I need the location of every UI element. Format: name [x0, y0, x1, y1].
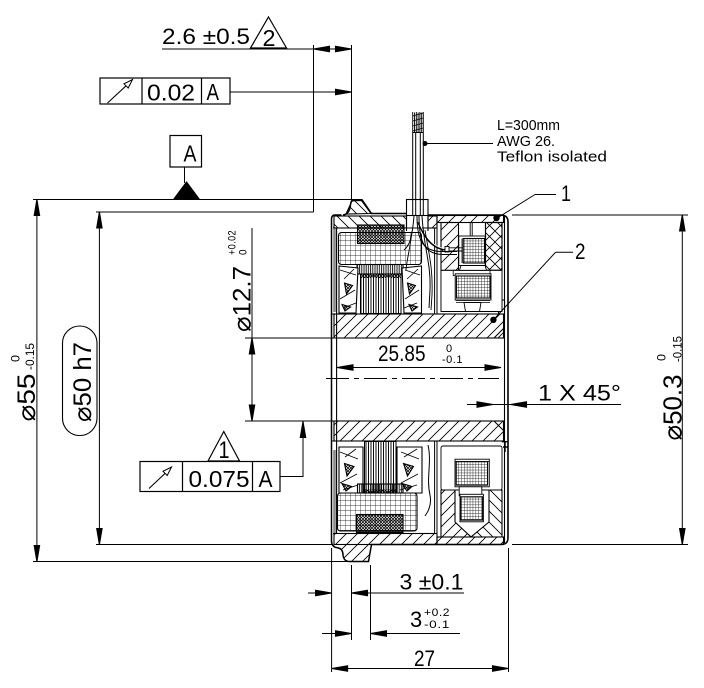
lower bobbin B: [460, 494, 483, 522]
label 1 leader: [497, 195, 557, 219]
label 2 leader: [493, 252, 573, 319]
lower left pole piece: [339, 447, 363, 493]
svg-text:0.02: 0.02: [147, 80, 195, 106]
upper bobbin 2 stem: [464, 303, 481, 312]
svg-text:1 X 45°: 1 X 45°: [538, 381, 621, 406]
bore chamfer bottom right: [494, 421, 504, 431]
bottom hatch band left: [334, 534, 437, 545]
bore chamfer top right: [494, 329, 504, 339]
svg-text:AWG 26.: AWG 26.: [497, 133, 555, 150]
revision flag triangle 2: [251, 17, 287, 48]
svg-text:Teflon isolated: Teflon isolated: [497, 149, 607, 166]
svg-text:-0.1: -0.1: [442, 354, 463, 366]
upper pocket 2 outline: [441, 270, 502, 311]
dia55 extension line top: [33, 199, 361, 201]
upper coil coarse grid block: [339, 233, 422, 265]
dimension 3 +0.2-0.1 line: [322, 633, 460, 635]
sleeve hatch band below bore: [334, 421, 504, 441]
housing right face inner line: [504, 216, 506, 543]
feature control frame 0.02 A: [100, 78, 230, 104]
lower winding block right B: [461, 497, 483, 520]
dia55 dimension line: [36, 200, 38, 562]
datum A filled triangle: [174, 182, 200, 200]
svg-text:A: A: [184, 141, 198, 167]
lower pocket walls: [441, 490, 502, 537]
lower bottom band hatch: [437, 537, 504, 545]
dia50 extension line top: [96, 211, 314, 213]
upper bobbin 1 stem: [470, 223, 472, 236]
svg-text:0.075: 0.075: [189, 466, 250, 492]
dia12.7 dimension line: [251, 228, 253, 421]
extension line x=313.5: [313, 45, 315, 212]
lower bearing hatch zone left: [441, 490, 471, 537]
upper winding block right 1: [463, 239, 484, 264]
svg-text:0: 0: [655, 354, 669, 361]
coil wire to bobbin1: [418, 222, 448, 250]
upper left pole piece: [339, 266, 358, 313]
upper lamination stack: [361, 274, 402, 314]
right face clip marks: [502, 442, 508, 452]
centerline: [326, 378, 499, 380]
datum A stem: [184, 167, 186, 183]
housing outline top-left: [343, 200, 407, 215]
datum A box: [170, 136, 202, 168]
wires above housing: [413, 133, 424, 217]
leader of FCF 0.02: [230, 91, 336, 93]
lower lamination stack: [365, 442, 397, 494]
housing top face right section: [428, 215, 508, 538]
svg-text:25.85: 25.85: [378, 341, 426, 366]
svg-text:2: 2: [263, 25, 276, 51]
lower winding block right A: [456, 462, 487, 485]
housing bottom-right: [332, 538, 509, 562]
divider lower: [435, 441, 437, 534]
upper bobbin 1 lower flange: [460, 266, 487, 271]
svg-text:2.6 ±0.5: 2.6 ±0.5: [162, 24, 250, 49]
upper winding block right 2: [456, 276, 490, 298]
dia12.7 extension lines: [245, 338, 336, 421]
dia50 extension line bottom: [96, 544, 332, 546]
lower bearing pocket outline: [441, 446, 502, 490]
FCF 0.075 leader: [280, 422, 303, 477]
svg-text:L=300mm: L=300mm: [497, 117, 560, 134]
FCF 0.075 A box: [140, 462, 280, 492]
left wall gray strip: [333, 228, 336, 312]
wire routing inside: [417, 216, 457, 252]
lower bobbin A: [455, 459, 489, 487]
svg-text:27: 27: [414, 646, 435, 671]
bottom extension lines: [332, 548, 509, 672]
wire grommet: [407, 200, 429, 216]
upper right pole piece: [402, 266, 422, 313]
svg-text:1: 1: [561, 181, 571, 206]
upper pocket walls: [441, 223, 502, 312]
lower coil coarse grid block: [338, 493, 418, 531]
svg-text:⌀50.3: ⌀50.3: [658, 375, 688, 441]
dimension 27 line: [332, 668, 509, 670]
sleeve hatch band above bore: [334, 314, 504, 338]
flag triangle 1 above FCF: [208, 432, 240, 462]
upper bobbin 1: [459, 236, 485, 266]
svg-text:A: A: [259, 466, 274, 492]
svg-text:⌀50 h7: ⌀50 h7: [69, 342, 97, 422]
housing top hatch band left: [334, 216, 407, 228]
svg-text:-0.1: -0.1: [424, 619, 450, 631]
dia50 dimension line: [98, 212, 100, 545]
lower coil winding band small: [358, 484, 404, 493]
upper bobbin 2: [455, 274, 491, 300]
svg-text:3 ±0.1: 3 ±0.1: [400, 570, 464, 595]
svg-text:+0.2: +0.2: [424, 607, 450, 619]
divider upper coil / bearing area: [435, 215, 437, 314]
dia50.3 extension lines: [512, 215, 688, 545]
lower stem between bobbins: [459, 487, 482, 496]
svg-text:2: 2: [575, 239, 586, 264]
lower right pole piece: [397, 447, 422, 493]
upper bearing area top band hatch: [437, 216, 504, 223]
left wall inner line: [336, 228, 338, 533]
svg-text:⌀55: ⌀55: [13, 374, 41, 422]
dia50 h7 capsule: [63, 326, 98, 436]
svg-text:-0.15: -0.15: [671, 336, 685, 362]
svg-text:0: 0: [9, 355, 23, 362]
wire note leader: [425, 143, 493, 145]
upper bearing hatch zone left: [441, 223, 459, 271]
svg-text:A: A: [207, 79, 220, 105]
runout symbol top: [108, 84, 129, 103]
upper coil winding band 2: [357, 265, 403, 275]
upper bearing hatch zone right: [486, 223, 503, 271]
svg-text:1: 1: [219, 437, 230, 464]
dia55 extension line bottom: [33, 561, 349, 563]
small notch right face above bore: [499, 300, 505, 314]
svg-text:0: 0: [238, 249, 250, 255]
pocket ceiling line upper-left: [333, 227, 437, 229]
lower wire squiggle: [425, 445, 431, 516]
flange step hatch top: [346, 201, 371, 215]
lower section floor line: [441, 536, 502, 538]
svg-text:⌀12.7: ⌀12.7: [229, 266, 257, 332]
extension line x=351.5: [351, 45, 353, 199]
pocket floor line lower-left: [333, 533, 437, 535]
upper coil winding band: [358, 225, 405, 244]
dimension 2.6 +-0.5 line: [162, 48, 352, 50]
dimension 1 X 45 line: [467, 404, 621, 406]
svg-text:-0.15: -0.15: [23, 343, 37, 370]
dia50.3 dimension line: [681, 215, 683, 545]
wire stripped ends: [413, 112, 424, 133]
upper bobbin 2 flange lines: [456, 301, 490, 303]
lower bearing hatch zone right: [471, 490, 502, 537]
dimension 25.85 line: [337, 367, 501, 369]
dimension 3 +-0.1 line: [308, 592, 464, 594]
svg-text:3: 3: [410, 607, 422, 632]
runout symbol bottom: [149, 473, 166, 489]
lower coil winding band dark: [357, 515, 404, 533]
